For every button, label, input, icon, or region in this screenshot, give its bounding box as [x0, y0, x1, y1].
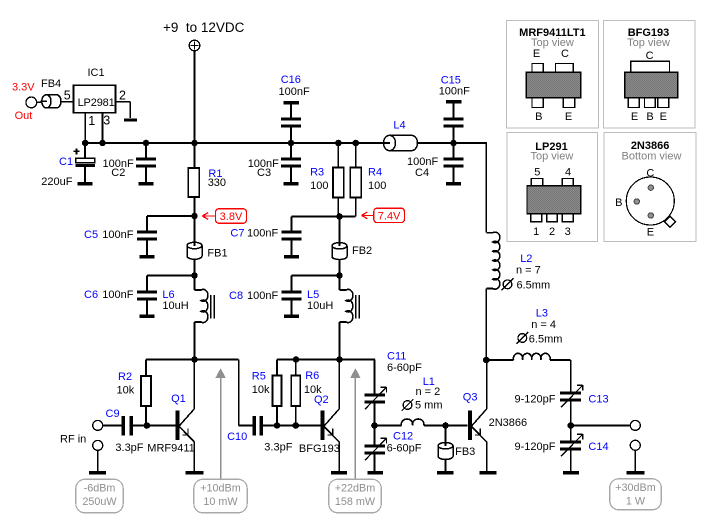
- svg-text:10k: 10k: [117, 385, 135, 397]
- svg-text:100nF: 100nF: [102, 229, 133, 241]
- svg-text:C9: C9: [106, 408, 120, 420]
- svg-text:IC1: IC1: [88, 67, 105, 79]
- svg-text:R5: R5: [252, 371, 266, 383]
- svg-text:C13: C13: [588, 394, 608, 406]
- svg-text:+30dBm: +30dBm: [615, 482, 656, 494]
- svg-text:C5: C5: [84, 229, 98, 241]
- svg-text:100nF: 100nF: [102, 289, 133, 301]
- svg-text:6.5mm: 6.5mm: [529, 334, 563, 346]
- svg-text:6-60pF: 6-60pF: [387, 443, 422, 455]
- svg-text:10 mW: 10 mW: [203, 496, 238, 508]
- svg-text:C6: C6: [84, 289, 98, 301]
- svg-text:R6: R6: [305, 370, 319, 382]
- svg-text:C16: C16: [281, 74, 301, 86]
- svg-text:5: 5: [64, 89, 71, 103]
- svg-text:C12: C12: [393, 431, 413, 443]
- svg-text:Out: Out: [15, 110, 33, 122]
- svg-text:250uW: 250uW: [82, 496, 117, 508]
- svg-text:+10dBm: +10dBm: [200, 483, 241, 495]
- svg-text:L2: L2: [520, 253, 532, 265]
- svg-text:9-120pF: 9-120pF: [515, 441, 556, 453]
- svg-text:C4: C4: [415, 167, 429, 179]
- svg-text:3: 3: [103, 114, 110, 128]
- svg-text:C2: C2: [111, 167, 125, 179]
- svg-text:6-60pF: 6-60pF: [387, 362, 422, 374]
- svg-text:FB1: FB1: [207, 248, 227, 260]
- svg-text:E: E: [647, 227, 654, 239]
- svg-text:100: 100: [310, 180, 328, 192]
- svg-text:4: 4: [565, 167, 571, 179]
- svg-text:158 mW: 158 mW: [335, 496, 376, 508]
- svg-text:2: 2: [549, 226, 555, 238]
- svg-text:-6dBm: -6dBm: [84, 483, 116, 495]
- svg-text:3: 3: [565, 226, 571, 238]
- svg-text:7.4V: 7.4V: [378, 210, 401, 222]
- svg-text:100nF: 100nF: [279, 86, 310, 98]
- svg-text:R2: R2: [118, 371, 132, 383]
- svg-text:6.5mm: 6.5mm: [517, 280, 551, 292]
- svg-text:100nF: 100nF: [247, 290, 278, 302]
- svg-text:R3: R3: [310, 167, 324, 179]
- svg-text:FB4: FB4: [41, 78, 61, 90]
- svg-text:Q1: Q1: [171, 393, 186, 405]
- svg-text:E: E: [565, 111, 572, 123]
- svg-text:100nF: 100nF: [439, 85, 470, 97]
- svg-text:n = 7: n = 7: [516, 265, 541, 277]
- svg-text:1 W: 1 W: [626, 495, 646, 507]
- svg-text:B: B: [646, 111, 653, 123]
- svg-text:E: E: [631, 111, 638, 123]
- svg-text:1: 1: [533, 226, 539, 238]
- svg-text:Q3: Q3: [463, 392, 478, 404]
- svg-text:R4: R4: [368, 167, 382, 179]
- svg-text:330: 330: [208, 177, 226, 189]
- svg-text:C: C: [646, 50, 654, 62]
- svg-text:C7: C7: [230, 228, 244, 240]
- svg-text:FB3: FB3: [455, 446, 475, 458]
- svg-text:BFG193: BFG193: [299, 443, 340, 455]
- svg-text:MRF9411: MRF9411: [147, 443, 194, 455]
- svg-text:2N3866: 2N3866: [489, 417, 528, 429]
- svg-text:C: C: [561, 48, 569, 60]
- svg-text:C1: C1: [59, 156, 73, 168]
- svg-text:3.3pF: 3.3pF: [115, 442, 143, 454]
- svg-text:5: 5: [534, 167, 540, 179]
- svg-text:9-120pF: 9-120pF: [515, 394, 556, 406]
- svg-text:B: B: [615, 197, 622, 209]
- svg-text:100: 100: [368, 180, 386, 192]
- svg-text:LP2981: LP2981: [78, 97, 115, 109]
- svg-text:+9 to 12VDC: +9 to 12VDC: [163, 20, 245, 35]
- svg-text:E: E: [660, 111, 667, 123]
- svg-text:RF in: RF in: [60, 433, 86, 445]
- svg-text:C3: C3: [257, 167, 271, 179]
- svg-text:FB2: FB2: [352, 245, 372, 257]
- svg-text:3.3pF: 3.3pF: [264, 442, 292, 454]
- svg-text:10k: 10k: [252, 384, 270, 396]
- svg-text:Top view: Top view: [627, 37, 670, 49]
- svg-text:B: B: [535, 111, 542, 123]
- svg-text:L3: L3: [536, 308, 548, 320]
- svg-text:100nF: 100nF: [247, 228, 278, 240]
- svg-text:C10: C10: [227, 431, 247, 443]
- svg-text:E: E: [533, 48, 540, 60]
- svg-text:10uH: 10uH: [307, 300, 333, 312]
- svg-text:3.3V: 3.3V: [12, 82, 35, 94]
- svg-text:5 mm: 5 mm: [415, 400, 443, 412]
- svg-text:Bottom view: Bottom view: [622, 150, 682, 162]
- svg-text:Q2: Q2: [314, 394, 329, 406]
- svg-text:Top view: Top view: [531, 150, 574, 162]
- svg-text:C14: C14: [588, 441, 608, 453]
- svg-text:1: 1: [88, 114, 95, 128]
- svg-text:n = 4: n = 4: [531, 319, 556, 331]
- svg-text:C11: C11: [387, 351, 406, 363]
- svg-text:C8: C8: [229, 290, 243, 302]
- svg-text:+22dBm: +22dBm: [335, 483, 376, 495]
- svg-text:n = 2: n = 2: [416, 386, 441, 398]
- svg-text:2: 2: [119, 88, 126, 102]
- svg-text:10uH: 10uH: [162, 300, 188, 312]
- svg-text:220uF: 220uF: [41, 176, 72, 188]
- svg-text:L4: L4: [393, 120, 405, 132]
- svg-text:3.8V: 3.8V: [220, 211, 243, 223]
